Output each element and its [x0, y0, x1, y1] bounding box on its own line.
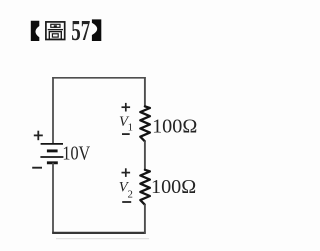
- battery value label 10V: [62, 143, 90, 165]
- wire top (node between battery + and R1 top): [52, 77, 146, 79]
- svg-text:57: 57: [71, 16, 90, 47]
- V2 - polarity mark: [122, 201, 131, 203]
- figure title left bracket 【: [31, 21, 40, 41]
- V1 + polarity mark: [122, 103, 131, 112]
- svg-text:10V: 10V: [62, 143, 90, 165]
- V2 + polarity mark: [122, 168, 131, 177]
- R1 value label 100Ω: [152, 116, 197, 138]
- battery - terminal mark: [32, 167, 42, 169]
- V1 - polarity mark: [122, 133, 130, 135]
- battery + terminal mark: [34, 131, 43, 141]
- wire bottom: [52, 232, 146, 234]
- svg-text:100Ω: 100Ω: [151, 176, 196, 198]
- figure title right bracket 】: [92, 19, 101, 41]
- wire right lower (R2 bottom lead): [144, 204, 146, 233]
- resistor R2 (100 ohm) zigzag: [140, 170, 150, 205]
- battery B1 (10V source): [40, 144, 63, 163]
- node voltage label V2: [119, 179, 133, 200]
- svg-text:100Ω: 100Ω: [152, 116, 197, 138]
- wire left lower (battery - lead): [52, 163, 54, 234]
- wire right upper (R1 top lead): [144, 77, 146, 107]
- resistor R1 (100 ohm) zigzag: [140, 106, 150, 141]
- wire left upper (battery + lead): [52, 77, 54, 144]
- figure title glyph 圖: [46, 22, 65, 40]
- wire right middle (between R1 and R2): [144, 141, 146, 171]
- svg-text:1: 1: [128, 122, 133, 134]
- node voltage label V1: [119, 114, 133, 134]
- svg-text:2: 2: [128, 189, 133, 201]
- R2 value label 100Ω: [151, 176, 196, 198]
